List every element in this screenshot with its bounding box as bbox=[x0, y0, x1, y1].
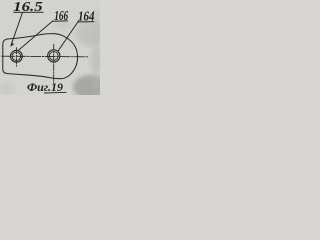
leader line for label 166 bbox=[18, 21, 53, 51]
paper background bbox=[0, 0, 100, 95]
leader line for label 164 bbox=[58, 21, 78, 51]
underline of 164 bbox=[77, 21, 94, 23]
hole 2 inner circle bbox=[49, 52, 58, 61]
scan blotch bottom-left bbox=[0, 82, 14, 94]
scan blotch right-mid bbox=[89, 48, 105, 72]
scan blotch right band bbox=[93, 10, 100, 90]
scan blotch top-right bbox=[76, 19, 104, 47]
arrowhead of leader 16.5 bbox=[10, 43, 14, 47]
leader line for label 16.5 bbox=[12, 13, 23, 44]
hole 2 outer circle bbox=[48, 50, 60, 62]
plate outline bbox=[3, 34, 78, 79]
hole 1 inner circle bbox=[12, 52, 21, 61]
svg-text:164: 164 bbox=[78, 8, 95, 23]
hole 2 vertical centerline bbox=[53, 44, 55, 83]
scan noise overlay bbox=[0, 0, 100, 95]
hole 1 vertical centerline bbox=[15, 48, 17, 67]
underline of 16.5 bbox=[14, 11, 44, 13]
underline of 166 bbox=[52, 20, 68, 22]
scan blotch above caption bbox=[54, 21, 72, 29]
hole 1 outer circle bbox=[11, 50, 23, 62]
scan blotch bottom-right corner bbox=[73, 75, 107, 99]
horizontal centerline bbox=[2, 55, 89, 58]
caption underline bbox=[44, 91, 67, 94]
